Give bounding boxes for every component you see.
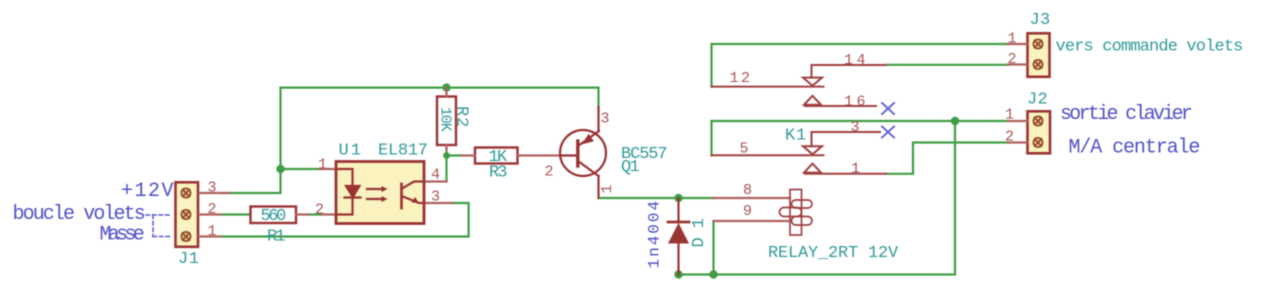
wire top right rail to J3 pin1 [712, 44, 1009, 87]
svg-text:J1: J1 [178, 250, 199, 269]
wire relay pin9 down [712, 221, 714, 275]
J2 pad 2 [1033, 138, 1042, 147]
svg-text:3: 3 [601, 111, 610, 128]
contact B common pin 5 [712, 154, 824, 156]
node junction top rail / R2 [442, 83, 450, 91]
contact B NC triangle [804, 164, 821, 173]
svg-text:sortie clavier: sortie clavier [1060, 103, 1192, 126]
resistor R3 [462, 148, 561, 164]
contact A NC triangle [804, 96, 821, 105]
diode D1 1n4004 [668, 198, 689, 275]
svg-text:2: 2 [1005, 129, 1014, 146]
svg-text:16: 16 [844, 94, 869, 111]
no-connect X on pin 3 [882, 127, 894, 138]
wire R2 bottom to U1 pin4 [445, 150, 447, 182]
J3 pad 2 [1033, 60, 1042, 69]
optocoupler U1 body [320, 162, 452, 224]
svg-text:560: 560 [261, 207, 287, 226]
svg-text:K1: K1 [785, 127, 807, 146]
svg-text:2: 2 [1008, 51, 1017, 68]
node junction bottom rail / K1 rail [951, 117, 959, 125]
svg-text:1n4004: 1n4004 [646, 199, 664, 269]
svg-text:3: 3 [208, 180, 217, 197]
J1 pad 3 (bottom, pin1) [181, 232, 190, 241]
svg-text:J3: J3 [1030, 11, 1051, 30]
contact A common pin 12 [712, 86, 824, 88]
node junction D1 top [674, 194, 682, 202]
J1 pad 2 [181, 210, 190, 219]
label J2 pin numbers [1005, 107, 1014, 146]
resistor R1 [251, 207, 309, 224]
svg-text:3: 3 [431, 189, 440, 206]
svg-text:J2: J2 [1027, 91, 1048, 110]
dashed leader Masse horizontal [153, 236, 172, 238]
contact B pin 3 lead [812, 132, 881, 146]
svg-text:1: 1 [599, 184, 616, 193]
svg-text:Q1: Q1 [621, 158, 640, 177]
Q1 collector pin down [597, 176, 599, 198]
Q1 collector diagonal [578, 161, 599, 176]
contact A pin 16 lead [805, 105, 876, 107]
label contact B pin numbers [740, 119, 861, 178]
wire contact A pin14 to J3 pin2 [886, 64, 1008, 66]
svg-text:10K: 10K [437, 107, 454, 132]
svg-text:1: 1 [1005, 107, 1014, 124]
connector J2 body [1008, 111, 1050, 153]
svg-text:1: 1 [318, 157, 327, 174]
dashed leader Masse vertical [152, 215, 154, 237]
no-connect X on pin 16 [882, 103, 894, 114]
U1 pin4 stub [425, 180, 447, 182]
wire contact B pin1 to J2 pin2 [886, 143, 1008, 174]
U1 pin3 stub [425, 202, 453, 204]
connector J1 body [176, 182, 230, 247]
svg-text:+12V: +12V [121, 180, 175, 203]
wire K1 common rail to J2 pin1 [712, 120, 1009, 122]
dashed leader boucle volets [146, 214, 172, 216]
wire K1 rail down to contact B common [710, 121, 712, 155]
wire Masse rail J1 pin1 to U1 pin3 [222, 203, 469, 237]
contact B moving contact triangle [803, 146, 822, 154]
svg-text:3: 3 [851, 119, 860, 136]
wire J1 pin2 to R1 [222, 213, 251, 215]
svg-text:1: 1 [1008, 31, 1017, 48]
Q1 base bar [576, 141, 579, 166]
wire R1 to U1 pin2 [308, 213, 322, 215]
U1 pin2 stub [322, 213, 336, 215]
node junction D1 bottom [674, 270, 682, 278]
svg-text:9: 9 [743, 203, 752, 220]
J1 pin stubs [199, 193, 229, 237]
svg-text:4: 4 [431, 167, 440, 184]
J2 pad 1 [1033, 116, 1042, 125]
svg-text:R1: R1 [267, 228, 285, 247]
relay contact B (pins 5/3/1) [712, 132, 887, 174]
U1 pin1 stub [320, 168, 336, 170]
U1 phototransistor [402, 182, 425, 209]
svg-text:D1: D1 [690, 209, 709, 247]
wire junction down to J1 pin3 [222, 169, 281, 193]
relay contact A (pins 12/14/16) [712, 65, 887, 106]
node junction J1 pin3 / U1 pin1 [276, 165, 284, 173]
wire bottom rail to K1 common rail [679, 121, 956, 275]
relay K1 coil [714, 190, 813, 236]
svg-text:2: 2 [208, 201, 217, 218]
svg-text:EL817: EL817 [378, 142, 428, 161]
wire +12V top rail [281, 88, 599, 169]
contact B pin 1 lead [805, 173, 886, 175]
U1 coupling arrows [367, 186, 388, 202]
wire Q1 collector to relay row [599, 197, 679, 199]
Q1 emitter diagonal [578, 131, 599, 146]
wire D1 top to relay pin8 [679, 197, 714, 199]
svg-text:2: 2 [315, 202, 324, 219]
node junction R2/R3 [443, 152, 450, 159]
J2 pin stubs [1008, 121, 1028, 143]
svg-text:R2: R2 [452, 106, 471, 128]
node junction relay pin9 bottom [709, 270, 717, 278]
J3 pin stubs [1008, 44, 1028, 65]
svg-text:U1: U1 [339, 142, 364, 161]
label J3 pin numbers [1008, 31, 1017, 69]
svg-text:12: 12 [730, 70, 753, 87]
label U1 pin numbers [315, 157, 440, 219]
svg-text:8: 8 [743, 182, 752, 199]
label Q1 pin numbers [545, 111, 617, 194]
J1 pad 1 (top, pin3) [181, 188, 190, 197]
contact A pin 14 lead [812, 65, 887, 78]
svg-text:Masse: Masse [100, 224, 144, 247]
Q1 emitter arrow [582, 134, 594, 145]
svg-text:RELAY_2RT 12V: RELAY_2RT 12V [768, 244, 899, 263]
Q1 emitter pin up [597, 107, 599, 131]
U1 internal LED [336, 169, 361, 215]
svg-text:5: 5 [740, 141, 749, 158]
transistor Q1 BC557 (PNP) [560, 107, 606, 198]
wire junction to U1 pin1 [281, 168, 321, 170]
svg-text:vers commande volets: vers commande volets [1056, 38, 1243, 57]
svg-text:2: 2 [545, 164, 554, 181]
svg-text:R3: R3 [489, 164, 507, 183]
J3 pad 1 [1033, 39, 1042, 48]
Q1 base lead [560, 154, 577, 156]
resistor R2 (vertical) [437, 88, 456, 150]
connector J3 body [1008, 33, 1050, 77]
wire to R3 left [447, 154, 463, 156]
svg-text:14: 14 [844, 52, 869, 69]
svg-text:M/A centrale: M/A centrale [1069, 137, 1200, 160]
label J1 pin numbers [208, 180, 217, 241]
svg-text:1: 1 [851, 161, 860, 178]
contact A moving contact triangle [803, 78, 822, 86]
label contact A pin numbers [730, 52, 870, 111]
svg-text:1: 1 [208, 223, 217, 240]
